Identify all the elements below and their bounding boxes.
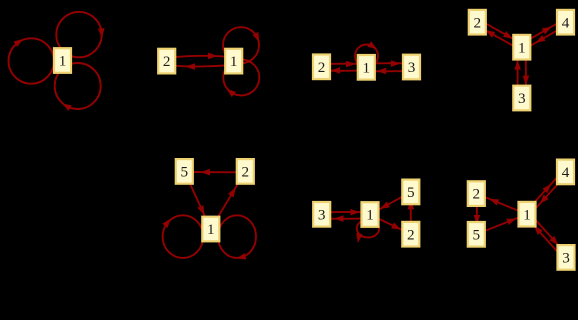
node 1 of graph A4	[513, 35, 530, 60]
self-loop top on node 1 of graph A2	[223, 27, 262, 63]
svg-text:1: 1	[366, 207, 374, 224]
edge 4->1 of graph A4	[523, 25, 567, 50]
node 2 of graph A2	[158, 49, 175, 74]
self-loop upper-right on node 1 of graph A1	[56, 12, 105, 57]
self-loop left on node 1 of graph B2	[162, 215, 203, 258]
svg-text:1: 1	[230, 53, 238, 70]
svg-text:1: 1	[518, 39, 526, 56]
svg-text:5: 5	[473, 226, 481, 243]
svg-text:3: 3	[562, 250, 570, 267]
self-loop bottom on node 1 of graph A2	[223, 60, 259, 98]
edge 4->1 of graph B4	[529, 174, 568, 216]
edge 1->2 of graph B4	[476, 194, 527, 215]
svg-text:5: 5	[407, 184, 415, 201]
node 4 of graph A4	[557, 10, 574, 35]
svg-text:1: 1	[523, 206, 531, 223]
svg-text:2: 2	[242, 164, 250, 181]
svg-text:1: 1	[363, 59, 371, 76]
svg-text:3: 3	[318, 206, 326, 223]
edge 1->3 of graph B4	[529, 213, 568, 256]
node 1 of graph B2	[202, 217, 219, 242]
node 4 of graph B4	[557, 160, 574, 185]
node 5 of graph B2	[176, 159, 193, 184]
svg-text:5: 5	[181, 164, 189, 181]
edge 1->3 of graph A4	[523, 47, 530, 98]
node 3 of graph A4	[513, 86, 530, 111]
edge 2->1 of graph A2	[167, 53, 234, 60]
edge 5->1 of graph B3	[370, 192, 411, 215]
edge 5->1 of graph B2	[184, 171, 211, 229]
edge 5->1 of graph B4	[476, 214, 527, 234]
edge 3->1 of graph B3	[322, 209, 370, 216]
node 2 of graph A4	[469, 10, 486, 35]
node 1 of graph B3	[362, 202, 379, 227]
edge 1->4 of graph B4	[525, 170, 564, 212]
svg-text:4: 4	[562, 14, 570, 31]
edge 2->5 of graph B2	[193, 169, 237, 176]
self-loop on node 1 of graph B3	[355, 220, 380, 244]
node 5 of graph B3	[402, 180, 419, 205]
edge 3->1 of graph A4	[514, 47, 521, 98]
edge 1->2 of graph A4	[476, 25, 521, 50]
node 1 of graph A2	[225, 49, 242, 74]
edge 1->2 of graph B3	[370, 215, 411, 235]
node 2 of graph A3	[313, 55, 330, 80]
svg-text:2: 2	[407, 226, 415, 243]
self-loop left on node 1 of graph A1	[9, 36, 54, 83]
edge 1->3 of graph A3	[366, 60, 411, 67]
self-loop bottom on node 1 of graph A1	[55, 63, 101, 111]
node 3 of graph A3	[403, 55, 420, 80]
svg-text:1: 1	[59, 53, 67, 70]
edge 1->2 of graph B2	[211, 171, 246, 229]
node 2 of graph B4	[468, 181, 485, 206]
edge 1->2 of graph A3	[322, 67, 367, 74]
edge 1->3 of graph B3	[322, 215, 370, 222]
edge 2->5 of graph B3	[408, 192, 415, 234]
node 1 of graph A1	[54, 48, 71, 73]
node 1 of graph A3	[358, 55, 375, 80]
edge 2->5 of graph B4	[474, 194, 481, 235]
node 5 of graph B4	[468, 222, 485, 247]
node 3 of graph B3	[313, 202, 330, 227]
svg-text:1: 1	[207, 221, 215, 238]
svg-text:2: 2	[474, 14, 482, 31]
node 1 of graph B4	[519, 202, 536, 227]
svg-text:2: 2	[473, 186, 481, 203]
svg-text:2: 2	[163, 53, 171, 70]
node 3 of graph B4	[558, 245, 575, 270]
edge 2->1 of graph A4	[479, 20, 524, 45]
svg-text:3: 3	[408, 59, 416, 76]
edge 3->1 of graph B4	[525, 216, 564, 259]
svg-text:2: 2	[318, 59, 326, 76]
self-loop right on node 1 of graph B2	[218, 215, 256, 261]
svg-text:3: 3	[518, 90, 526, 107]
edge 3->1 of graph A3	[366, 68, 411, 75]
self-loop on node 1 of graph A3	[355, 41, 379, 67]
edge 1->2 of graph A2	[167, 63, 234, 70]
node 2 of graph B3	[402, 222, 419, 247]
node 2 of graph B2	[237, 159, 254, 184]
edge 2->1 of graph A3	[322, 61, 367, 68]
edge 1->4 of graph A4	[520, 20, 564, 45]
svg-text:4: 4	[562, 164, 570, 181]
